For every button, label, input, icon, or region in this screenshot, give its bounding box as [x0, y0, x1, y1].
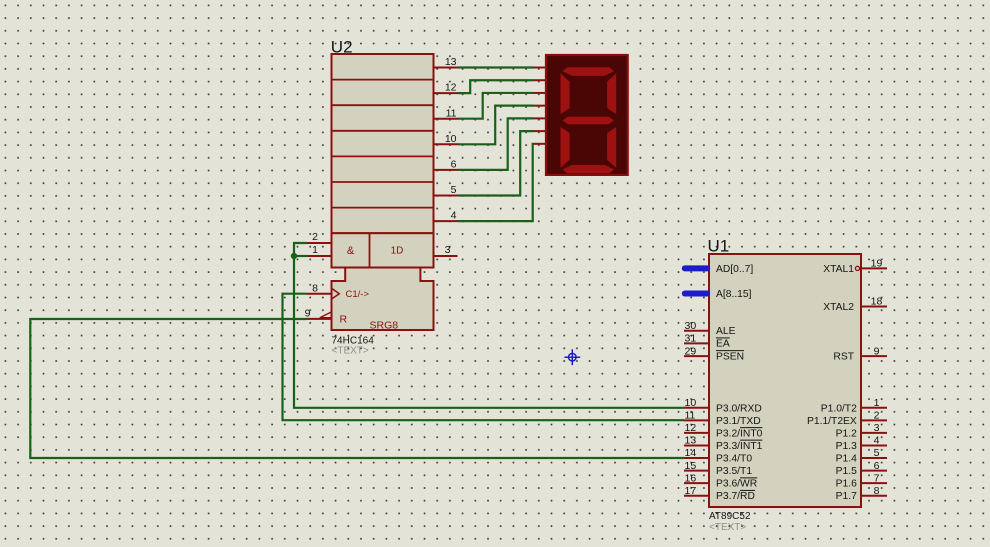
U2 pin 10 stub	[434, 133, 459, 145]
svg-text:3: 3	[445, 244, 451, 256]
U1 pin 18 stub (XTAL2)	[861, 296, 887, 308]
svg-text:P1.0/T2: P1.0/T2	[821, 403, 857, 414]
svg-text:P1.4: P1.4	[836, 454, 857, 465]
junction node at U2 pin1	[291, 253, 297, 259]
7-segment display body	[546, 55, 628, 175]
wire U2 pin10 to display pin4	[458, 106, 534, 145]
U1 XTAL1 pin circle	[855, 266, 859, 270]
svg-text:2: 2	[874, 410, 880, 422]
svg-text:10: 10	[445, 133, 457, 145]
7seg segment a	[563, 67, 614, 76]
U2 pin 6 stub	[434, 159, 459, 171]
U1 pin 1 stub (P1.0/T2)	[861, 397, 887, 409]
U2 control box with & and 1D	[332, 233, 434, 267]
display pin stub 2	[534, 79, 547, 81]
svg-text:P1.3: P1.3	[836, 441, 857, 452]
U1 pin name P3.5/T1	[716, 466, 752, 477]
svg-text:15: 15	[685, 460, 697, 472]
svg-text:11: 11	[685, 410, 696, 422]
svg-text:4: 4	[874, 435, 880, 447]
U1 pin name P3.7/RD	[716, 490, 755, 502]
svg-text:14: 14	[685, 447, 697, 459]
7seg segment c	[607, 127, 616, 168]
svg-text:1D: 1D	[391, 246, 404, 257]
svg-text:P1.6: P1.6	[836, 479, 857, 490]
svg-text:P1.1/T2EX: P1.1/T2EX	[807, 416, 857, 427]
svg-text:4: 4	[451, 210, 457, 222]
svg-text:P3.5/T1: P3.5/T1	[716, 466, 752, 477]
U1 pin 3 stub (P1.2)	[861, 422, 887, 434]
U1 pin name EA (active low)	[716, 338, 730, 350]
svg-text:EA: EA	[716, 339, 730, 350]
U2 pin 13 stub	[434, 56, 459, 68]
svg-text:<TEXT>: <TEXT>	[332, 345, 369, 356]
display pin stub 7	[534, 143, 547, 145]
U1 pin 14 stub (P3.4/T0)	[684, 447, 709, 459]
wire net DATA: U2 pins 1+2 to U1 P3.0/RXD	[294, 243, 684, 408]
svg-text:XTAL1: XTAL1	[823, 264, 854, 275]
U1 pin 13 stub (P3.3/INT1)	[684, 435, 709, 447]
svg-text:<TEXT>: <TEXT>	[709, 522, 746, 533]
U2 lower SRG8 box	[332, 268, 434, 331]
7seg segment e	[561, 127, 570, 168]
svg-text:13: 13	[685, 435, 697, 447]
svg-text:P1.2: P1.2	[836, 428, 857, 439]
U2 pin 2 stub	[307, 231, 332, 243]
U1 pin name P3.3/INT1	[716, 440, 763, 452]
U1 pin 17 stub (P3.7/RD)	[684, 485, 709, 497]
U1 pin name P3.4/T0	[716, 454, 752, 465]
U1 pin name P3.0/RXD	[716, 403, 762, 414]
U2 pin 1 stub	[307, 244, 332, 256]
U2 pin 12 stub	[434, 82, 459, 94]
U1 pin 11 stub (P3.1/TXD)	[684, 410, 709, 422]
svg-text:31: 31	[685, 333, 697, 345]
U2 74HC164 cell-stack body	[332, 54, 434, 233]
U1 pin 9 stub (RST)	[861, 345, 887, 357]
U2 pin 3 stub	[434, 244, 458, 256]
U1 pin name P3.6/WR	[716, 478, 757, 490]
svg-text:RST: RST	[833, 352, 854, 363]
svg-text:1: 1	[874, 397, 880, 409]
display pin stub 1	[534, 67, 547, 69]
display pin stub 3	[534, 92, 547, 94]
svg-text:6: 6	[874, 460, 880, 472]
svg-text:P3.3/INT1: P3.3/INT1	[716, 441, 763, 452]
U1 pin 6 stub (P1.5)	[861, 460, 887, 472]
U2 pin 9 inverted stub	[305, 308, 332, 320]
svg-text:A[8..15]: A[8..15]	[716, 289, 752, 300]
svg-text:5: 5	[451, 184, 457, 196]
svg-text:AD[0..7]: AD[0..7]	[716, 264, 753, 275]
svg-text:10: 10	[685, 397, 697, 409]
svg-text:30: 30	[685, 320, 697, 332]
svg-text:19: 19	[871, 258, 883, 270]
wire U2 pin1 branch	[294, 255, 307, 257]
svg-text:SRG8: SRG8	[370, 319, 399, 331]
wire U2 pin6 to display pin5	[458, 118, 534, 170]
U1 pin 30 stub (ALE)	[684, 320, 709, 332]
svg-text:P1.5: P1.5	[836, 466, 857, 477]
svg-text:1: 1	[312, 244, 318, 256]
wire net CLK: U2 pin8 to U1 P3.1/TXD	[283, 294, 685, 421]
U1 pin 10 stub (P3.0/RXD)	[684, 397, 709, 409]
svg-text:8: 8	[874, 485, 880, 497]
wire net RST: U2 pin9 to U1 P3.4/T0	[30, 319, 684, 458]
U2 clock symbol C1 input	[332, 288, 370, 300]
U1 pin 4 stub (P1.3)	[861, 435, 887, 447]
svg-text:3: 3	[874, 422, 880, 434]
bus A[8..15]	[685, 289, 752, 300]
svg-text:P3.6/WR: P3.6/WR	[716, 479, 757, 490]
wire U2 pin4 to display pin7	[458, 144, 534, 221]
svg-text:P3.0/RXD: P3.0/RXD	[716, 403, 762, 414]
svg-text:13: 13	[445, 56, 457, 68]
svg-text:P3.4/T0: P3.4/T0	[716, 454, 752, 465]
7seg segment b	[607, 73, 616, 114]
svg-text:18: 18	[871, 296, 883, 308]
U1 pin 8 stub (P1.7)	[861, 485, 887, 497]
svg-text:C1/->: C1/->	[346, 289, 370, 300]
wire U2 pin11 to display pin3	[458, 93, 534, 119]
U1 pin 15 stub (P3.5/T1)	[684, 460, 709, 472]
svg-text:6: 6	[451, 159, 457, 171]
U1 pin 19 stub (XTAL1)	[861, 258, 887, 270]
U2 pin 4 stub	[434, 210, 459, 222]
wire U2 pin12 to display pin2	[458, 80, 534, 93]
svg-text:ALE: ALE	[716, 326, 736, 337]
U2 pin 5 stub	[434, 184, 459, 196]
wire U2 pin5 to display pin6	[458, 131, 534, 195]
svg-text:P1.7: P1.7	[836, 491, 857, 502]
bus AD[0..7]	[685, 264, 754, 275]
U1 pin 7 stub (P1.6)	[861, 472, 887, 484]
U1 AT89C52 body	[709, 254, 861, 507]
U1 pin 5 stub (P1.4)	[861, 447, 887, 459]
U1 pin 16 stub (P3.6/WR)	[684, 472, 709, 484]
U1 pin name P3.2/INT0	[716, 428, 763, 440]
svg-text:12: 12	[445, 82, 457, 94]
svg-text:R: R	[340, 314, 348, 326]
svg-text:P3.1/TXD: P3.1/TXD	[716, 416, 761, 427]
svg-text:P3.7/RD: P3.7/RD	[716, 491, 755, 502]
U1 pin name PSEN (active low)	[716, 351, 744, 363]
U1 pin 29 stub (PSEN)	[684, 345, 709, 357]
U1 pin 2 stub (P1.1/T2EX)	[861, 410, 887, 422]
svg-text:&: &	[347, 245, 355, 257]
U1 pin name P3.1/TXD	[716, 416, 761, 427]
7seg segment g	[563, 117, 614, 125]
svg-text:9: 9	[874, 345, 880, 357]
svg-text:29: 29	[685, 345, 697, 357]
svg-text:17: 17	[685, 485, 697, 497]
svg-text:9: 9	[305, 308, 311, 320]
7seg segment d	[563, 165, 614, 174]
svg-text:XTAL2: XTAL2	[823, 302, 854, 313]
U2 pin 11 stub	[434, 107, 459, 119]
U1 pin 31 stub (EA)	[684, 333, 709, 345]
svg-text:5: 5	[874, 447, 880, 459]
svg-text:16: 16	[685, 472, 697, 484]
editor crosshair cursor	[564, 349, 580, 365]
U1 pin 12 stub (P3.2/INT0)	[684, 422, 709, 434]
svg-text:12: 12	[685, 422, 697, 434]
display pin stub 5	[534, 117, 547, 119]
display pin stub 6	[534, 130, 547, 132]
svg-text:2: 2	[312, 231, 318, 243]
display pin stub 4	[534, 105, 547, 107]
U2 pin 8 stub	[307, 282, 332, 294]
svg-text:8: 8	[312, 282, 318, 294]
svg-text:AT89C52: AT89C52	[709, 511, 751, 522]
svg-text:U1: U1	[708, 237, 730, 256]
svg-text:PSEN: PSEN	[716, 351, 744, 362]
7seg segment f	[561, 73, 570, 114]
svg-text:11: 11	[446, 107, 457, 119]
svg-text:P3.2/INT0: P3.2/INT0	[716, 428, 763, 439]
svg-text:7: 7	[874, 472, 880, 484]
wire U2 pin13 to display pin1	[458, 66, 534, 68]
